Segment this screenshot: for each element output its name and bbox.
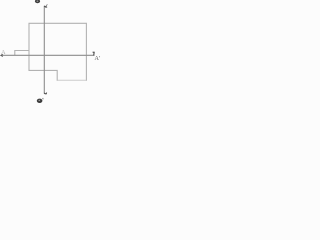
svg-text:A′: A′	[94, 55, 101, 62]
svg-text:A: A	[1, 49, 6, 56]
